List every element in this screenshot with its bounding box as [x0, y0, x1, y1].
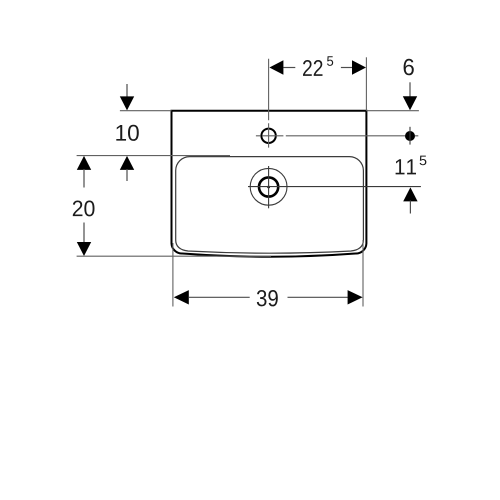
- dim 22.5 superscript: [327, 56, 333, 66]
- basin bottom left reference line: [77, 255, 271, 257]
- dim 39 line right segment: [288, 296, 348, 298]
- basin inner bowl: [176, 157, 364, 254]
- dim 20 label: [73, 200, 95, 216]
- dim 10 down arrow: [120, 96, 134, 110]
- dim 10 top reference line: [120, 110, 172, 112]
- dim 39 left extension line: [172, 243, 174, 307]
- drain outer circle: [250, 168, 287, 205]
- dim 22.5 right arrow: [352, 60, 366, 74]
- dim 11.5 label: [396, 159, 416, 174]
- drain center dot: [267, 186, 270, 189]
- dim 11.5 arrow stem: [409, 201, 411, 214]
- dim 10 down arrow stem: [126, 84, 128, 97]
- dim 6 down arrow: [403, 96, 417, 110]
- dim 39 line left segment: [189, 296, 250, 298]
- dim 39 left arrow: [174, 290, 189, 304]
- dim 6 arrow stem: [409, 82, 411, 97]
- drain horizontal crosshair extended to 11.5 reference: [248, 186, 421, 188]
- tap hole: [261, 129, 275, 143]
- tap hole vertical centerline: [268, 59, 270, 148]
- dim 39 right arrow: [348, 290, 363, 304]
- dim 20 up arrow: [77, 156, 91, 170]
- drain inner circle: [259, 177, 278, 196]
- dim 22.5 left extension uses tap centerline; right extension line: [365, 57, 367, 110]
- dim 39 right extension line: [362, 240, 364, 307]
- tap hole horizontal centerline to dot: [256, 135, 418, 137]
- bowl top reference line: [77, 155, 230, 157]
- dim 11.5 superscript: [420, 156, 427, 166]
- dim 10 up arrow stem: [126, 169, 128, 181]
- dim 22.5 label: [303, 60, 322, 76]
- dot vertical tick: [409, 127, 411, 145]
- dim 20 down arrow: [77, 242, 91, 256]
- dim 22.5 left arrow: [269, 60, 283, 74]
- dim 39 label: [257, 290, 278, 306]
- drain vertical crosshair: [268, 166, 270, 208]
- dim 10 label: [116, 125, 139, 141]
- dim 22.5 line left stub: [283, 67, 295, 69]
- top edge right reference line: [366, 110, 419, 112]
- dim 20 up arrow stem: [83, 169, 85, 188]
- dim 22.5 line right stub: [341, 67, 352, 69]
- dim 20 down arrow stem: [83, 223, 85, 244]
- tap centerline end dot: [405, 131, 415, 141]
- basin outer outline: [172, 111, 367, 257]
- dim 11.5 up arrow: [403, 187, 417, 201]
- dim 6 label: [404, 59, 414, 75]
- dim 10 up arrow: [120, 156, 134, 170]
